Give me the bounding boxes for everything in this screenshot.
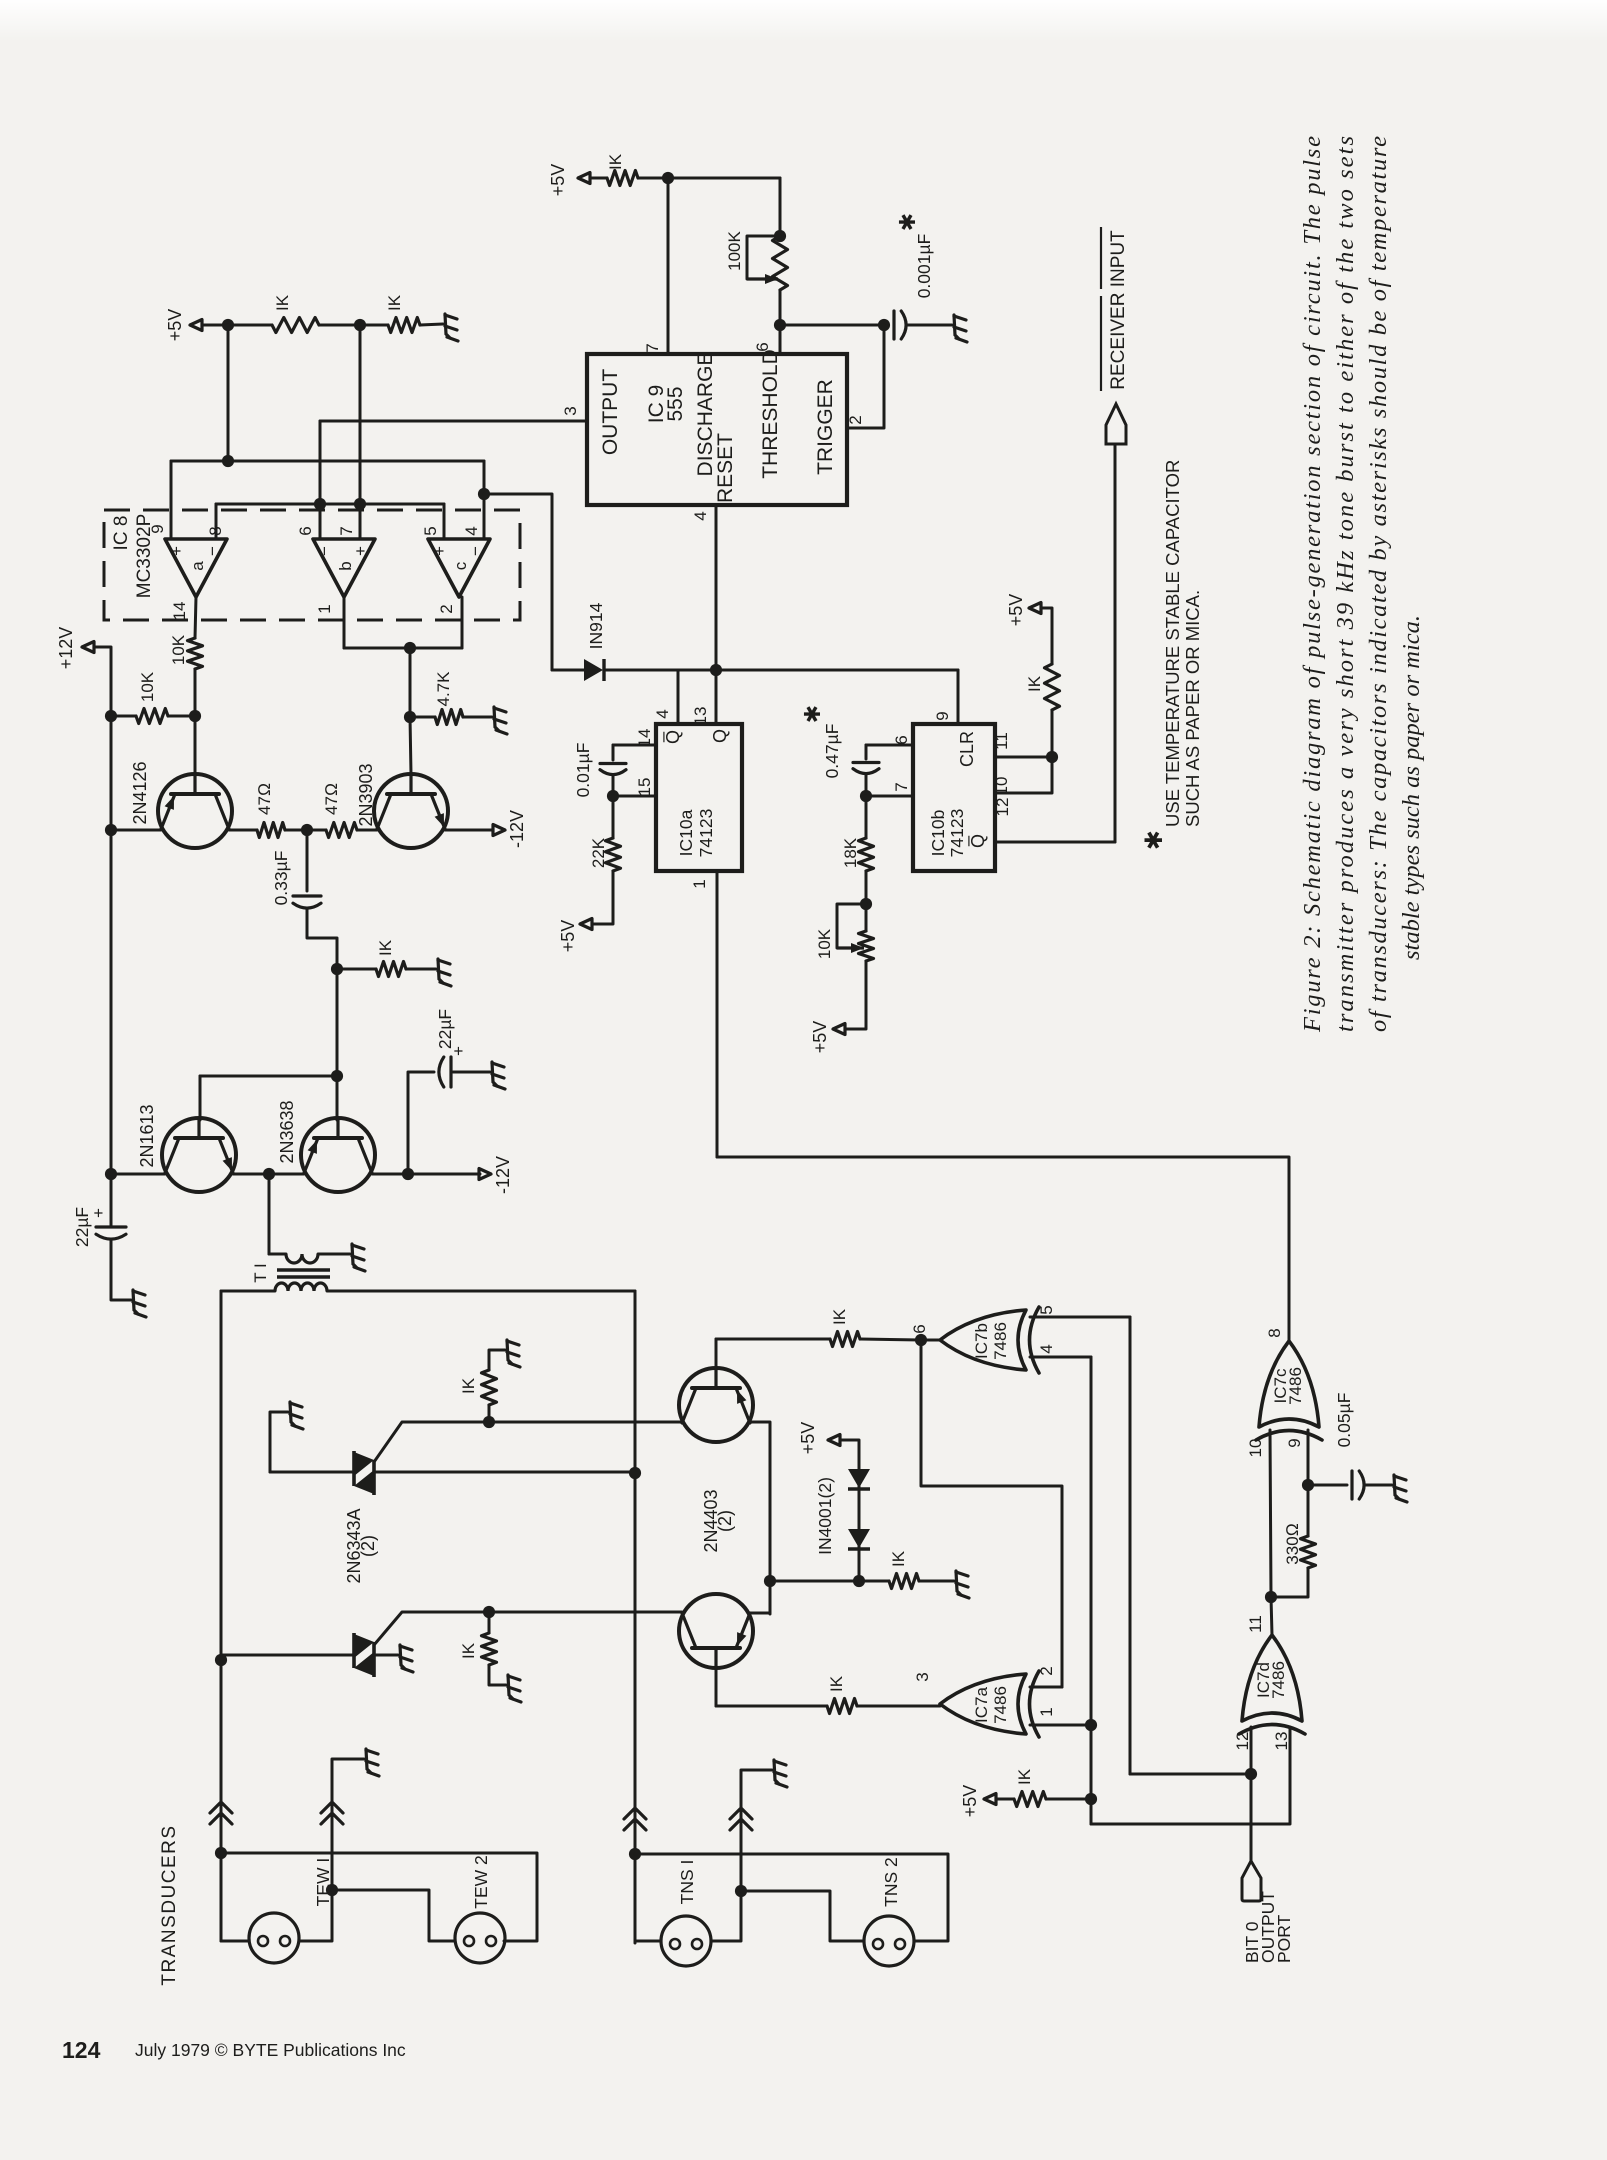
svg-text:9: 9 <box>148 524 167 533</box>
resistor 1K (lower base) <box>827 1699 857 1714</box>
wire triac1 MT1 to rail <box>374 1471 635 1474</box>
transistor 2N4403 (lower, PNP) <box>679 1594 753 1668</box>
wire 2N3903 emitter to -12V <box>445 829 493 832</box>
svg-text:13: 13 <box>1272 1732 1291 1751</box>
node pin7 bus <box>354 498 366 510</box>
wire T1 secondary right <box>327 1290 635 1293</box>
resistor 1K (gate1) <box>482 1370 497 1405</box>
resistor 1K (gate2) <box>482 1633 497 1665</box>
svg-text:SUCH AS PAPER OR MICA.: SUCH AS PAPER OR MICA. <box>1182 590 1203 827</box>
wire to 1K <box>859 1580 889 1583</box>
svg-text:10: 10 <box>992 777 1011 796</box>
diode 1N914 <box>552 669 584 672</box>
svg-text:TRANSDUCERS: TRANSDUCERS <box>159 1824 180 1985</box>
wire node down to 555 pin 7 <box>667 178 670 354</box>
svg-text:IC10a: IC10a <box>676 809 696 856</box>
node ref bus <box>222 455 234 467</box>
power +5V arrow (22K) <box>580 919 592 930</box>
wire riser to TNS2 pin <box>741 1891 864 1941</box>
node pin7/18K <box>860 790 872 802</box>
triac 2N6343A (lower) <box>354 1633 374 1677</box>
wire rail to TNS1 pin <box>635 1940 661 1943</box>
svg-text:9: 9 <box>933 711 952 720</box>
wire 555 output pin 3 <box>320 420 587 423</box>
node pin11/1K <box>1046 751 1058 763</box>
wire 330ohm to node <box>1271 1568 1308 1597</box>
wire +5V to node <box>202 324 228 327</box>
node threshold <box>774 319 786 331</box>
node 2N4126 base <box>189 710 201 722</box>
wire triac2 gate <box>374 1612 682 1645</box>
wire node to 0.33uF <box>306 830 309 891</box>
svg-text:IK: IK <box>889 1550 908 1567</box>
svg-text:10: 10 <box>1246 1439 1265 1458</box>
resistor 4.7K <box>435 710 463 725</box>
svg-text:IK: IK <box>376 939 395 956</box>
capacitor 0.01uF <box>600 762 626 765</box>
svg-text:8: 8 <box>1265 1328 1284 1337</box>
wire base lead 2N1613 <box>199 1076 202 1120</box>
svg-text:Q: Q <box>710 729 730 743</box>
wire to IC7d pin 13 <box>1091 1727 1290 1824</box>
wire riser to TEW2 pin <box>332 1890 455 1941</box>
svg-text:of transducers: The capacitors: of transducers: The capacitors indicated… <box>1365 136 1392 1032</box>
svg-text:124: 124 <box>62 2037 101 2063</box>
capacitor 0.47uF <box>853 761 879 764</box>
wire base lead upper <box>715 1339 718 1370</box>
svg-text:5: 5 <box>1037 1305 1056 1314</box>
svg-text:IK: IK <box>827 1675 846 1692</box>
resistor 10K (vertical) <box>188 638 203 669</box>
node pin10/pin11 <box>1265 1591 1277 1603</box>
svg-text:RECEIVER INPUT: RECEIVER INPUT <box>1108 230 1129 390</box>
svg-text:11: 11 <box>1246 1615 1265 1633</box>
wire IC10a pin 14 stub <box>613 744 656 747</box>
svg-text:CLR: CLR <box>957 731 977 767</box>
resistor 47ohm (left) <box>257 823 285 838</box>
svg-text:6: 6 <box>910 1324 929 1333</box>
transistor 2N1613 (NPN) <box>162 1118 236 1192</box>
IC10a 74123 box <box>656 724 742 871</box>
xor gate IC7d <box>1239 1635 1305 1734</box>
potentiometer 100K <box>774 230 786 242</box>
wire 4.7K to ground <box>463 716 492 719</box>
svg-text:4: 4 <box>653 709 672 718</box>
wire to 1K <box>337 968 376 971</box>
svg-text:(2): (2) <box>358 1535 378 1557</box>
wire base lead lower <box>715 1666 718 1706</box>
wire pin 4 riser down <box>1090 1357 1093 1824</box>
wire 10K to base node <box>194 669 197 716</box>
power +5V arrow (10K pot) <box>833 1024 845 1035</box>
wire IC7b pin 4 <box>1030 1356 1091 1359</box>
wire divider mid to pin 7 <box>359 325 362 539</box>
wire 0.47uF to pin 7 node <box>865 774 868 796</box>
node rail/TNS1 <box>629 1848 641 1860</box>
wire IC10b pin 6 stub <box>866 744 913 747</box>
svg-text:+: + <box>430 546 449 556</box>
wire to IC10a pin 4 <box>677 670 680 724</box>
wire to 22K <box>612 796 615 838</box>
svg-text:47Ω: 47Ω <box>255 783 274 815</box>
resistor 1K (divider upper) <box>272 318 319 333</box>
power +5V arrow (CLR) <box>1029 603 1041 614</box>
wire reference bus <box>171 460 484 463</box>
svg-text:July 1979 © BYTE Publications: July 1979 © BYTE Publications Inc <box>135 2040 406 2060</box>
svg-text:+: + <box>351 546 370 556</box>
xor gate IC7b <box>940 1307 1039 1373</box>
svg-text:2: 2 <box>437 604 456 613</box>
svg-text:stable types such as paper or: stable types such as paper or mica. <box>1398 615 1425 960</box>
wire 2N4126 collector <box>229 829 257 832</box>
power +5V arrow (comparator divider) <box>190 320 202 331</box>
svg-text:74123: 74123 <box>947 809 967 858</box>
svg-text:+5V: +5V <box>798 1422 818 1455</box>
wire TEW rail down <box>220 1291 223 1941</box>
resistor 47ohm (right) <box>326 823 357 838</box>
arrow RECEIVER INPUT <box>1106 404 1126 444</box>
wire triac1 MT2 <box>270 1471 354 1474</box>
node 1K pull-up <box>1085 1793 1097 1805</box>
ground (gate2 1K) <box>508 1675 521 1702</box>
node collector/22uF <box>402 1168 414 1180</box>
node rail/triac2 <box>215 1654 227 1666</box>
svg-text:+5V: +5V <box>558 920 578 953</box>
connector TNS1 <box>661 1916 711 1966</box>
wire +5V to 1K <box>996 1798 1014 1801</box>
node comparator c feed <box>478 488 490 500</box>
wire 18K to pot <box>865 871 868 904</box>
svg-text:IK: IK <box>385 294 404 311</box>
wire pin 5 riser to pin 12 <box>1130 1773 1251 1776</box>
wire 1K to IC7a pin 3 <box>857 1705 940 1708</box>
ground (22uF output) <box>492 1062 505 1089</box>
ground (0.05uF) <box>1394 1475 1407 1502</box>
svg-text:+: + <box>449 1046 468 1056</box>
wire base lead 2N3903 <box>410 717 411 774</box>
wire 1K to IC7b pin 6 <box>860 1339 921 1340</box>
svg-text:7: 7 <box>892 782 911 791</box>
wire triac2 MT2 to rail <box>221 1654 354 1657</box>
transistor 2N4403 (upper, PNP) <box>679 1368 753 1442</box>
svg-text:c: c <box>451 561 470 570</box>
wire down to 100K pot <box>779 178 782 236</box>
svg-text:7486: 7486 <box>1269 1661 1288 1699</box>
wire 22uF to ground <box>453 1071 490 1074</box>
wire to 0.01uF <box>612 745 615 760</box>
power -12V arrow (output stage) <box>479 1169 491 1180</box>
svg-text:7486: 7486 <box>991 1322 1010 1360</box>
node gate1/1K <box>483 1416 495 1428</box>
svg-text:4: 4 <box>1037 1344 1056 1353</box>
svg-text:TNS 2: TNS 2 <box>881 1857 901 1907</box>
wire IC7a pin 2 stub <box>1030 1686 1062 1689</box>
node TNS2 riser <box>735 1885 747 1897</box>
wire pin 1 to IC7c output <box>717 1157 1289 1341</box>
capacitor 0.33uF <box>293 894 321 897</box>
wire +5V to 1K <box>590 177 607 180</box>
wire +12V rail <box>94 647 111 1226</box>
svg-text:−: − <box>466 546 485 556</box>
wire to 1K <box>360 324 388 327</box>
svg-text:IK: IK <box>459 1377 478 1394</box>
svg-text:+: + <box>89 1208 108 1218</box>
svg-text:7486: 7486 <box>991 1686 1010 1724</box>
IC8 MC3302P dashed outline <box>104 510 520 620</box>
node 18K/10K pot <box>860 898 872 910</box>
svg-text:IN4001(2): IN4001(2) <box>815 1477 835 1555</box>
svg-text:IK: IK <box>830 1308 849 1325</box>
node rail/emitter <box>105 824 117 836</box>
svg-text:0.05µF: 0.05µF <box>1334 1393 1354 1448</box>
svg-text:PORT: PORT <box>1274 1914 1294 1963</box>
node divider mid <box>354 319 366 331</box>
wire node down to ref bus <box>227 325 230 461</box>
svg-text:0.47µF: 0.47µF <box>822 724 842 779</box>
svg-text:−: − <box>315 546 334 556</box>
wire upper emitter down <box>750 1422 770 1614</box>
svg-text:IC7b: IC7b <box>972 1323 991 1359</box>
svg-text:IK: IK <box>606 153 625 170</box>
node rail/10K <box>105 710 117 722</box>
op-amp IC8a <box>165 539 227 597</box>
transistor 2N3903 (NPN) <box>374 774 448 848</box>
wire to 22uF <box>408 1072 434 1174</box>
svg-text:IC10b: IC10b <box>928 810 948 857</box>
wire IC10a pin 1 down <box>716 871 719 1157</box>
svg-text:18K: 18K <box>841 837 860 868</box>
svg-text:-12V: -12V <box>507 810 527 848</box>
svg-text:47Ω: 47Ω <box>322 783 341 815</box>
wire to 2N1613 base <box>200 1075 337 1078</box>
wire pin 9 to 330ohm <box>1307 1485 1310 1536</box>
wire to IC10a pin 13 <box>715 670 718 724</box>
triac 2N6343A (upper) <box>354 1451 374 1495</box>
wire comparator c output <box>461 597 464 648</box>
wire to pin 8 <box>215 504 218 539</box>
svg-text:TRIGGER: TRIGGER <box>814 379 837 475</box>
node emitters 2N4403 <box>764 1575 776 1587</box>
wire to IC10b pin 9 <box>957 670 960 724</box>
capacitor 22uF (rail bypass) <box>96 1225 126 1228</box>
svg-text:11: 11 <box>992 732 1011 750</box>
wire 1N914 to IC10b pin 9 <box>605 669 958 672</box>
cable break (TNS2 riser) <box>730 1808 752 1830</box>
ground (emitter 1K) <box>956 1571 969 1598</box>
power +5V arrow (555 supply) <box>578 173 590 184</box>
svg-text:1: 1 <box>315 604 334 613</box>
svg-text:330Ω: 330Ω <box>1283 1523 1302 1564</box>
wire to comparator pin 9 <box>170 461 173 539</box>
resistor 1K (CLR pull-up) <box>1045 664 1060 710</box>
wire node to 100K pot top <box>668 177 780 180</box>
svg-text:6: 6 <box>296 526 315 535</box>
ground (TNS2) <box>774 1760 787 1787</box>
svg-text:✱: ✱ <box>895 213 920 231</box>
power +12V arrow <box>82 642 94 653</box>
wire b/c outputs join <box>344 647 462 650</box>
wire IC10a pin 15 stub <box>613 795 656 798</box>
wire output bus pins 8/5 <box>216 503 444 506</box>
wire base lead 2N3638 <box>336 1076 339 1120</box>
wire rail to 2N1613 collector <box>111 1173 165 1176</box>
ground (rail bypass) <box>133 1290 146 1317</box>
cable break (TEW rail) <box>210 1802 232 1824</box>
node emitters <box>263 1168 275 1180</box>
svg-text:Q̅: Q̅ <box>968 834 988 848</box>
svg-text:b: b <box>336 561 355 570</box>
node 555 pin7/pot junction <box>662 172 674 184</box>
resistor 1K (upper base) <box>830 1332 860 1347</box>
diode 1N4001 (upper) <box>848 1469 870 1489</box>
IC9 555 timer box <box>587 354 847 505</box>
svg-text:✱: ✱ <box>1141 830 1168 850</box>
svg-text:TNS I: TNS I <box>677 1860 697 1905</box>
svg-text:3: 3 <box>913 1672 932 1681</box>
svg-text:-12V: -12V <box>493 1156 513 1194</box>
wire 0.33uF to 1K node <box>307 908 337 969</box>
wire rail to 10K <box>111 715 136 718</box>
svg-text:2N3638: 2N3638 <box>277 1100 297 1163</box>
wire 1K to +5V <box>1041 608 1052 664</box>
wire threshold to cap 0.001uF <box>780 324 888 327</box>
wire to 4.7K <box>410 716 435 719</box>
wire Q-bar to receiver arrow <box>1114 444 1117 842</box>
wire comparator b output <box>343 597 346 648</box>
wire riser to ground <box>332 1759 364 1890</box>
node b/c outputs <box>404 642 416 654</box>
op-amp IC8b <box>313 539 375 597</box>
power +5V arrow (XOR pull-up) <box>984 1794 996 1805</box>
svg-text:2: 2 <box>1037 1666 1056 1675</box>
svg-text:1: 1 <box>1037 1707 1056 1716</box>
svg-text:22µF: 22µF <box>435 1009 455 1049</box>
node rail/2N1613 collector <box>105 1168 117 1180</box>
svg-text:+5V: +5V <box>960 1785 980 1818</box>
node pin15/22K <box>607 790 619 802</box>
svg-text:USE TEMPERATURE STABLE CAPACIT: USE TEMPERATURE STABLE CAPACITOR <box>1162 460 1183 827</box>
wire 10K to node <box>168 715 195 718</box>
capacitor 22uF (output) <box>449 1057 452 1087</box>
wire 1K to node <box>319 324 360 327</box>
transistor 2N4126 (PNP) <box>158 774 232 848</box>
svg-text:10K: 10K <box>169 634 188 665</box>
cable break (TEW2 riser) <box>321 1802 343 1824</box>
wire 0.01uF to pin 15 node <box>612 775 615 796</box>
wire 555 reset riser <box>715 505 718 670</box>
svg-text:74123: 74123 <box>696 809 716 858</box>
wire to 1K <box>228 324 272 327</box>
svg-text:IK: IK <box>1015 1768 1034 1785</box>
wire 1K to ground <box>489 1350 505 1370</box>
wire trigger to 555 pin 2 <box>847 325 884 428</box>
wire riser to ground <box>741 1770 772 1891</box>
svg-text:THRESHOLD: THRESHOLD <box>759 349 782 479</box>
resistor 22K <box>606 838 621 871</box>
wire lower emitter <box>750 1612 770 1615</box>
ground (triac1) <box>290 1402 303 1429</box>
svg-text:IN914: IN914 <box>586 602 606 649</box>
power -12V arrow (driver) <box>493 825 505 836</box>
wire node to 1K <box>1051 710 1054 757</box>
wire base to 1K <box>716 1705 827 1708</box>
wire node to IC7b tip <box>921 1339 940 1342</box>
T1 secondary winding <box>275 1283 327 1291</box>
wire 2N3638 collector to -12V <box>372 1173 480 1176</box>
node pin1/pin4 <box>1085 1719 1097 1731</box>
wire node to IC7d output <box>1271 1597 1272 1635</box>
svg-text:555: 555 <box>664 386 687 421</box>
wire 0.05uF to ground <box>1364 1484 1392 1487</box>
wire TNS1 pin to riser <box>711 1891 741 1941</box>
resistor 1K (XOR pull-up) <box>1014 1792 1046 1807</box>
wire triac1 to ground <box>270 1412 288 1472</box>
svg-text:IC 8: IC 8 <box>111 516 132 551</box>
transistor 2N3638 (PNP) <box>301 1118 375 1192</box>
wire IC7a pin 1 stub <box>1030 1724 1091 1727</box>
svg-text:TEW 2: TEW 2 <box>471 1855 491 1908</box>
wire to 0.47uF <box>865 745 868 759</box>
svg-text:2N4126: 2N4126 <box>130 761 150 824</box>
wire IC7c pin 9 <box>1307 1430 1310 1485</box>
svg-text:12: 12 <box>993 798 1012 817</box>
node output stage bases <box>331 1070 343 1082</box>
svg-text:2N3903: 2N3903 <box>356 763 376 826</box>
wire 555 output riser / pin 6 <box>319 421 322 539</box>
svg-text:100K: 100K <box>725 230 744 270</box>
potentiometer 10K <box>859 931 874 961</box>
node 1K feedback <box>331 963 343 975</box>
power +5V arrow (diode bias) <box>828 1435 840 1446</box>
IC10b 74123 box <box>913 724 995 871</box>
resistor 1K (feedback) <box>376 962 406 977</box>
wire TNS rail down <box>634 1291 637 1943</box>
svg-text:+5V: +5V <box>810 1021 830 1054</box>
xor gate IC7c <box>1256 1341 1322 1440</box>
wire 1K to ground <box>489 1665 506 1685</box>
svg-text:IK: IK <box>459 1642 478 1659</box>
wire pot to +5V <box>845 961 866 1029</box>
svg-text:7: 7 <box>643 343 662 352</box>
resistor 1K (divider lower) <box>388 318 420 333</box>
wire rail to 2N4126 emitter <box>111 829 161 832</box>
wire 1K to node <box>1046 1798 1091 1801</box>
wire TEW1 node to TEW2 pin <box>221 1853 537 1941</box>
svg-text:Q̅: Q̅ <box>663 730 683 744</box>
svg-text:9: 9 <box>1285 1438 1304 1447</box>
resistor 1K (emitter bias) <box>889 1574 919 1589</box>
T1 core <box>277 1268 330 1272</box>
wire to 18K <box>865 796 868 838</box>
wire emitters join <box>233 1173 304 1176</box>
capacitor 0.05uF <box>1350 1471 1353 1499</box>
wire 22uF to ground <box>111 1239 131 1300</box>
svg-text:4.7K: 4.7K <box>434 671 453 707</box>
svg-text:3: 3 <box>561 406 580 415</box>
svg-text:IK: IK <box>273 294 292 311</box>
svg-text:transmitter produces a very sh: transmitter produces a very short 39 kHz… <box>1332 136 1359 1032</box>
svg-text:+5V: +5V <box>1006 594 1026 627</box>
wire base to 1K <box>716 1338 830 1341</box>
wire triac2 MT1 <box>374 1654 398 1657</box>
svg-text:1: 1 <box>690 879 709 888</box>
svg-text:5: 5 <box>421 526 440 535</box>
connector TNS2 <box>864 1916 914 1966</box>
wire T1 secondary left <box>221 1290 275 1293</box>
wire emitters to T1 primary <box>268 1174 271 1254</box>
node gate2/1K <box>483 1606 495 1618</box>
wire pin 5 to IC7d pin 12 <box>1129 1317 1132 1774</box>
